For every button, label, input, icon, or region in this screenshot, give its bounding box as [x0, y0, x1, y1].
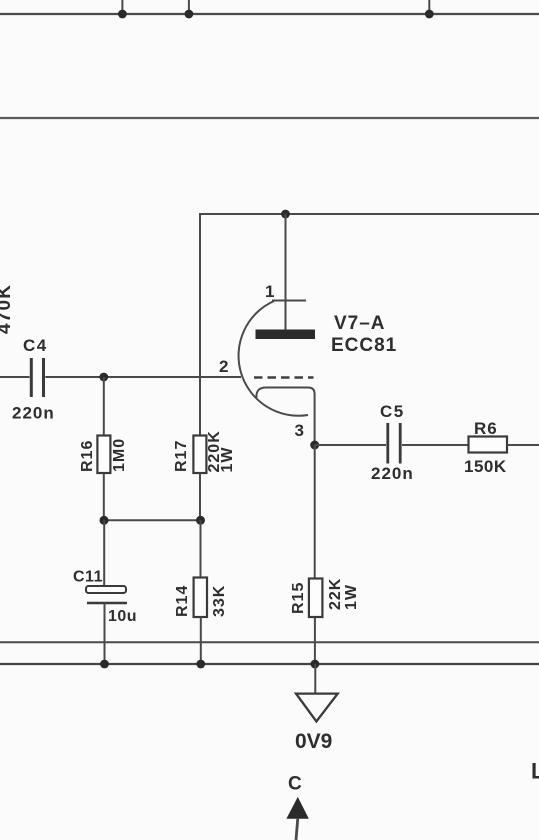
junction dot grid node — [99, 373, 108, 382]
resistor R6 — [469, 437, 508, 453]
svg-text:R6: R6 — [474, 419, 498, 438]
svg-text:V7–A: V7–A — [334, 313, 386, 334]
wire grid node from C4 to tube — [45, 376, 241, 378]
junction dot ground bus left — [100, 660, 109, 669]
wire R16 to mid node — [103, 473, 105, 520]
svg-text:R16: R16 — [79, 440, 96, 472]
svg-text:1W: 1W — [219, 447, 236, 473]
svg-text:220n: 220n — [12, 404, 55, 423]
svg-text:0V9: 0V9 — [295, 730, 332, 753]
wire lower rail upper line — [0, 641, 539, 643]
svg-text:R15: R15 — [290, 582, 307, 614]
svg-text:C4: C4 — [23, 336, 48, 355]
svg-text:220n: 220n — [371, 464, 414, 483]
wire mid node down to C11 — [103, 520, 105, 587]
capacitor C4 — [30, 358, 33, 397]
junction dot top rail right — [425, 10, 434, 19]
svg-text:2: 2 — [219, 357, 228, 376]
resistor R15 — [309, 579, 323, 618]
capacitor C5 — [386, 423, 389, 464]
triode V7-A envelope — [239, 301, 308, 416]
wire stub up from node at x=122 — [121, 0, 123, 14]
svg-text:22K: 22K — [327, 578, 344, 610]
wire grid node down to R16 — [103, 377, 105, 436]
wire grid input from left edge — [0, 376, 30, 378]
junction dot ground bus middle — [196, 660, 205, 669]
wire cathode node to C5 — [315, 444, 386, 446]
resistor R16 — [97, 436, 110, 474]
svg-text:3: 3 — [295, 421, 304, 440]
capacitor C11 positive plate — [86, 586, 126, 593]
wire second horizontal rail — [0, 117, 539, 119]
resistor R14 — [194, 578, 207, 618]
svg-text:C: C — [288, 774, 302, 795]
wire R14 to bottom rail — [200, 617, 202, 664]
cathode of V7-A with lead down — [256, 388, 314, 446]
anode plate bar of V7-A — [256, 330, 316, 340]
wire anode supply rail with corner at x=200 — [200, 214, 539, 435]
wire cathode node down to R15 — [314, 445, 316, 579]
svg-text:1M0: 1M0 — [111, 438, 128, 472]
junction dot anode feed — [281, 210, 290, 219]
node C arrow head — [287, 798, 308, 818]
triode envelope top opening line — [272, 300, 306, 302]
grid dashed electrode of V7-A — [254, 376, 314, 378]
wire C5 to R6 — [402, 444, 469, 446]
svg-text:C11: C11 — [73, 569, 103, 586]
wire R17 to mid node — [199, 473, 201, 520]
wire stub up from node at x=429 — [428, 0, 430, 14]
wire stub up from node at x=189 — [188, 0, 190, 14]
wire mid node down to R14 — [200, 520, 202, 578]
wire top HT rail — [0, 13, 539, 15]
wire R15 to bottom rail — [314, 617, 316, 664]
svg-text:R14: R14 — [174, 585, 191, 617]
svg-text:ECC81: ECC81 — [331, 335, 397, 356]
junction dot ground bus right — [311, 660, 320, 669]
wire R6 to right edge — [507, 444, 539, 446]
svg-text:10u: 10u — [108, 608, 137, 625]
svg-text:C5: C5 — [380, 402, 405, 421]
ground symbol 0V9 triangle — [296, 694, 338, 722]
junction dot mid node left — [100, 516, 109, 525]
svg-text:1: 1 — [265, 282, 274, 301]
junction dot top rail middle — [185, 10, 194, 19]
junction dot top rail left — [118, 10, 127, 19]
junction dot cathode node — [310, 441, 319, 450]
svg-text:470K: 470K — [0, 284, 15, 334]
junction dot mid node right — [196, 516, 205, 525]
resistor R17 — [193, 436, 206, 474]
svg-text:1W: 1W — [343, 584, 360, 610]
svg-text:33K: 33K — [211, 585, 228, 617]
wire mid node horizontal — [104, 519, 201, 521]
capacitor C11 negative plate — [87, 602, 127, 605]
svg-text:150K: 150K — [464, 457, 507, 476]
wire C11 to bottom rail — [104, 603, 106, 664]
wire ground bus to ground symbol — [314, 664, 316, 694]
node C arrow shaft — [296, 818, 298, 840]
wire ground bus lower line — [0, 663, 539, 665]
svg-text:R17: R17 — [173, 440, 190, 472]
svg-text:L: L — [531, 759, 539, 784]
wire anode lead down to plate — [285, 214, 287, 331]
